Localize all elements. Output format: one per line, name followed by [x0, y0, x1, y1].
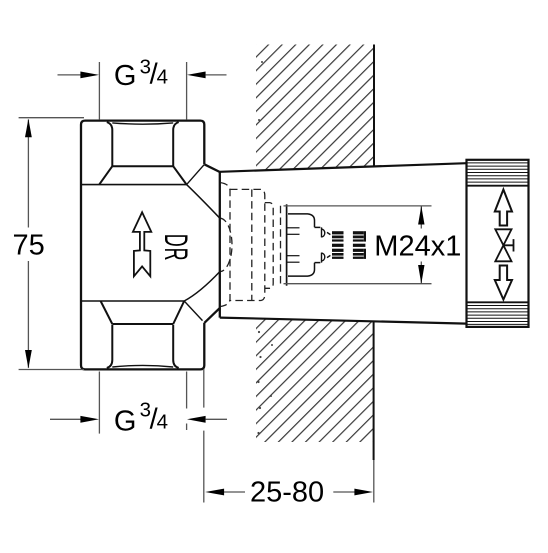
25-80 dimension tails	[224, 491, 245, 493]
svg-text:DR: DR	[157, 234, 192, 262]
dimension 75 extension bottom	[19, 369, 84, 371]
svg-text:4: 4	[157, 65, 168, 88]
hex facet bottom line (top nut)	[112, 165, 173, 167]
25-80 arrow right	[354, 489, 373, 496]
body-to-sleeve diagonal top	[204, 164, 220, 172]
svg-text:M24x1: M24x1	[374, 231, 461, 263]
chamfer diagonal bottom nut left	[101, 301, 113, 324]
G3/4 bottom dimension tails	[50, 418, 81, 420]
chamfer diagonal top nut left	[99, 166, 112, 184]
plate top band	[467, 163, 529, 182]
tangent line bottom (nut corner)	[184, 301, 202, 321]
sphere silhouette arc hidden (dashed)	[220, 218, 232, 271]
M24 extension line bottom	[284, 283, 432, 285]
M24x1 dimension line	[420, 206, 422, 229]
spindle step bottom	[288, 263, 315, 276]
plate arrow up	[495, 190, 512, 226]
M24x1 arrow down	[418, 265, 424, 284]
funnel inner edge dashed	[221, 183, 231, 307]
G3/4 top arrow left	[80, 72, 99, 79]
concrete dots in wall hatch	[257, 61, 273, 434]
spline block column 2	[353, 231, 366, 259]
wall face line top	[373, 45, 375, 167]
hidden facet dashed line	[251, 189, 253, 300]
svg-text:G: G	[114, 405, 137, 437]
svg-text:G: G	[114, 60, 137, 92]
hidden step dashed outline	[265, 203, 273, 289]
hex facet line bottom-right	[173, 325, 179, 368]
spindle step top shoulder	[315, 226, 321, 228]
sphere silhouette arc solid bottom	[184, 272, 220, 301]
spindle housing left face	[286, 204, 288, 285]
sleeve bottom edge	[220, 318, 467, 324]
dimension 75 extension top	[19, 117, 84, 119]
G3/4 bottom arrow left	[80, 416, 99, 423]
G3/4 top dimension tails	[58, 74, 82, 76]
25-80 left extension	[203, 369, 205, 408]
wall hatching top band	[256, 45, 374, 171]
spindle step bottom shoulder	[315, 262, 321, 264]
plate valve stem	[503, 239, 513, 251]
G3/4 bottom extension lines	[98, 372, 100, 434]
M24 extension line top	[284, 205, 432, 207]
dimension 75 arrow up	[25, 119, 32, 138]
plate valve bowtie symbol	[495, 229, 511, 261]
plate bottom band	[467, 306, 529, 325]
dimension 75 arrow down	[25, 350, 32, 369]
hex facet arc (bottom nut)	[112, 365, 173, 367]
hidden bonnet dashed outline	[230, 189, 265, 300]
dimension 75 line	[27, 120, 29, 228]
spline block column 1	[332, 231, 344, 259]
circlip top	[322, 227, 331, 237]
circlip bottom	[322, 253, 331, 263]
sphere silhouette arc solid top	[187, 185, 220, 219]
sleeve left edge	[219, 172, 221, 318]
svg-text:4: 4	[157, 410, 168, 433]
spindle flats lines	[287, 228, 300, 262]
hex facet line bottom-left	[107, 325, 113, 368]
hex facet line top-right	[173, 122, 179, 166]
bottom nut top edge	[81, 300, 184, 302]
flow direction arrow	[133, 212, 151, 276]
hex facet arc (top nut)	[112, 123, 173, 124]
chamfer diagonal top nut right	[173, 166, 186, 184]
body-to-sleeve diagonal bottom	[204, 308, 220, 323]
G3/4 top arrow right	[187, 72, 206, 79]
valve body outer outline	[81, 121, 204, 370]
wall hatching bottom band	[256, 319, 374, 443]
hex facet line top-left	[107, 122, 113, 166]
plate arrow down	[495, 266, 512, 300]
wall face line bottom (also 25-80 right extension)	[373, 322, 375, 461]
G3/4 top extension lines	[98, 62, 100, 120]
hex facet top line (bottom nut)	[112, 323, 173, 325]
25-80 arrow left	[205, 489, 224, 496]
svg-text:75: 75	[13, 230, 45, 262]
G3/4 bottom arrow right	[187, 416, 206, 423]
top nut bottom edge	[81, 184, 187, 186]
hidden ring dashed line	[280, 206, 282, 284]
sleeve top edge	[220, 163, 467, 172]
chamfer diagonal bottom nut right	[173, 301, 184, 324]
spindle step top	[288, 214, 315, 227]
protection cap plate	[467, 160, 529, 327]
svg-text:25-80: 25-80	[250, 477, 324, 509]
tangent line top (nut corner)	[187, 165, 204, 185]
M24x1 arrow up	[418, 206, 424, 225]
